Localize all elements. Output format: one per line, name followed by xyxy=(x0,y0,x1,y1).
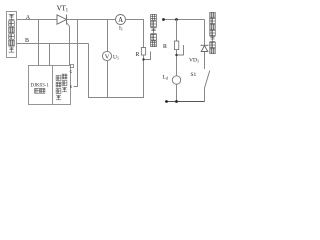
text column 电阻电感性负载 xyxy=(210,12,216,53)
text column 电阻性负载 xyxy=(151,14,157,46)
svg-text:I1: I1 xyxy=(119,26,123,32)
switch bottom wire xyxy=(204,88,206,102)
svg-text:U1: U1 xyxy=(113,54,119,60)
wire below coil xyxy=(176,84,178,101)
bottom-right line xyxy=(167,101,205,103)
inductor Ld coil xyxy=(172,76,180,84)
svg-text:V: V xyxy=(105,53,110,60)
svg-text:R: R xyxy=(136,52,140,58)
svg-text:G: G xyxy=(70,70,73,74)
resistor R2 body xyxy=(174,41,178,50)
gate wire from VT1 xyxy=(67,23,70,66)
svg-text:S1: S1 xyxy=(191,72,197,78)
resistor R1 body xyxy=(141,48,145,56)
svg-text:K: K xyxy=(70,85,73,89)
cathode wire from line A down to K terminal xyxy=(74,20,78,87)
voltmeter wire to bottom xyxy=(107,61,109,98)
svg-text:DJK03-1: DJK03-1 xyxy=(31,84,50,89)
wire below R2 with wiper hook xyxy=(176,50,178,77)
source box vertical text 三相电源输出 xyxy=(9,14,15,52)
wire: line A ammeter to R-load branch xyxy=(126,19,145,21)
svg-text:R: R xyxy=(163,44,167,50)
sync wire from line B down to trigger box xyxy=(49,44,51,66)
switch S1 blade xyxy=(205,71,210,89)
wire below R1 with wiper hook xyxy=(143,55,145,98)
svg-text:A: A xyxy=(118,17,123,24)
svg-text:Ld: Ld xyxy=(163,75,168,81)
wire: line B xyxy=(17,43,89,45)
svg-text:VD1: VD1 xyxy=(189,58,199,64)
thyristor VT1 xyxy=(57,15,67,25)
sync wire from line A down to trigger box xyxy=(38,20,40,66)
wire: line A thyristor to ammeter xyxy=(67,19,116,21)
terminal G xyxy=(71,65,74,68)
resistor R (left, resistive load) branch wire xyxy=(143,20,145,48)
resistor R (right) branch wire xyxy=(176,20,178,42)
wire: right branch down from line A xyxy=(204,20,206,46)
voltmeter branch wire xyxy=(107,20,109,52)
node dot left terminal xyxy=(162,18,165,21)
freewheeling diode VD1 xyxy=(201,45,209,51)
node dot coil junction xyxy=(175,100,178,103)
DJK03-1 box xyxy=(29,66,71,105)
wire diode to switch xyxy=(204,52,206,70)
wire: line A right segment xyxy=(164,19,205,21)
node dot at R2 branch xyxy=(175,18,178,21)
node dot bottom terminal xyxy=(165,100,168,103)
ammeter A (I1) xyxy=(116,15,126,25)
wire: line A from source to thyristor xyxy=(17,19,58,21)
trigger circuit vertical text xyxy=(56,74,67,100)
voltmeter V (U1) xyxy=(102,51,111,60)
wire: line B descent to bottom xyxy=(88,44,90,99)
three-phase source box xyxy=(7,12,17,58)
wire: bottom-left line xyxy=(89,97,145,99)
